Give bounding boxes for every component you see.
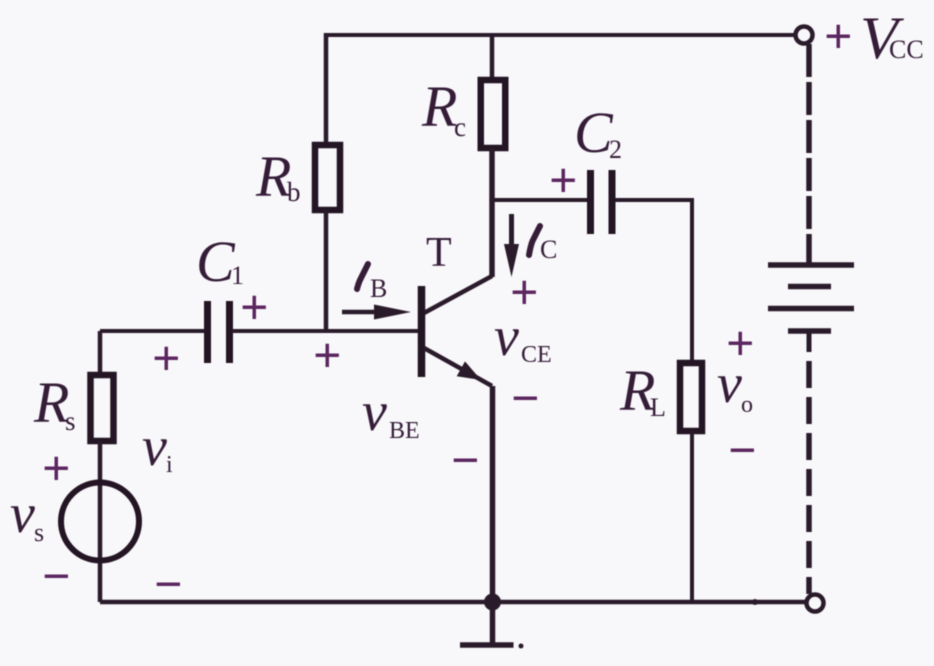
wire C2 right segment (C2 to RL top corner) <box>615 198 692 360</box>
label vi <box>142 416 173 478</box>
label Rs <box>33 370 76 436</box>
transistor emitter slant <box>424 348 492 386</box>
wire input left segment (node to C1) <box>100 329 207 333</box>
svg-text:R: R <box>255 144 291 209</box>
svg-text:+: + <box>313 327 342 383</box>
junction dot emitter-ground <box>484 594 501 611</box>
battery dashed lead upper <box>806 44 812 263</box>
svg-text:+: + <box>824 8 853 64</box>
label C2 <box>574 100 622 165</box>
source vs circle <box>61 483 139 561</box>
svg-text:R: R <box>33 370 69 435</box>
arrow iB <box>342 305 411 320</box>
svg-text:C: C <box>574 100 614 165</box>
wire Rb top (rail to Rb) <box>324 33 329 145</box>
label iC <box>529 226 557 264</box>
svg-text:−: − <box>511 370 540 426</box>
arrow iC <box>504 214 519 277</box>
battery stub below <box>807 331 812 352</box>
svg-text:+: + <box>42 440 71 496</box>
terminal bottom open circle <box>807 595 824 612</box>
svg-text:T: T <box>426 230 452 276</box>
resistor Rb <box>315 145 340 210</box>
label vCE <box>494 306 552 368</box>
label vs <box>10 483 44 547</box>
label +Vcc <box>824 5 924 71</box>
battery plate long 1 <box>768 262 854 268</box>
label vBE <box>362 381 420 444</box>
resistor Rc <box>481 80 506 148</box>
svg-text:v: v <box>362 381 387 443</box>
svg-text:v: v <box>494 306 519 368</box>
label iB <box>357 264 387 303</box>
svg-text:+: + <box>549 152 578 208</box>
label C1 <box>196 229 244 294</box>
svg-text:v: v <box>142 416 167 478</box>
svg-text:−: − <box>451 432 480 488</box>
wire base segment (C1 to base) <box>232 329 420 333</box>
svg-text:o: o <box>741 392 753 418</box>
wire top rail <box>326 33 796 37</box>
small mark on bottom wire <box>752 599 758 605</box>
svg-text:R: R <box>421 74 457 139</box>
ground bar <box>460 642 514 648</box>
svg-text:CC: CC <box>889 35 924 64</box>
battery dashed lead lower <box>806 361 812 594</box>
capacitor C1 <box>208 301 230 363</box>
svg-text:s: s <box>65 406 76 436</box>
svg-text:CE: CE <box>521 342 552 368</box>
label Rb <box>255 144 301 209</box>
wire RL bottom to rail <box>690 431 694 602</box>
battery plate short 2 <box>788 328 831 334</box>
svg-text:s: s <box>34 518 44 547</box>
transistor T base bar <box>418 286 426 377</box>
svg-text:2: 2 <box>609 135 622 164</box>
svg-text:−: − <box>728 422 757 478</box>
capacitor C2 <box>591 170 613 234</box>
label RL <box>619 358 666 423</box>
svg-text:B: B <box>370 274 387 303</box>
svg-text:BE: BE <box>389 418 420 444</box>
terminal +Vcc open circle <box>796 27 813 44</box>
wire bottom rail <box>100 600 807 605</box>
transistor collector slant <box>424 276 492 313</box>
svg-text:−: − <box>42 548 71 604</box>
label Rc <box>421 74 466 142</box>
wire Rs to source <box>98 441 103 602</box>
battery plate long 2 <box>768 306 854 312</box>
ground stub <box>490 602 496 645</box>
svg-text:+: + <box>240 279 269 335</box>
svg-text:i: i <box>166 452 173 478</box>
svg-text:c: c <box>454 112 466 142</box>
svg-text:+: + <box>152 330 181 386</box>
svg-text:+: + <box>726 315 755 371</box>
battery plate short 1 <box>788 284 831 290</box>
label vo <box>717 353 753 418</box>
svg-text:C: C <box>540 235 557 264</box>
transistor emitter arrowhead <box>457 361 481 380</box>
wire Rc bottom (Rc to collector) <box>489 148 495 277</box>
svg-text:C: C <box>196 229 236 294</box>
svg-text:v: v <box>10 483 35 545</box>
resistor RL <box>680 363 702 431</box>
wire Rb bottom (Rb to base node) <box>324 210 329 331</box>
wire left vertical (input node to Rs) <box>98 331 103 372</box>
wire emitter vertical <box>490 386 496 602</box>
resistor Rs <box>91 375 114 441</box>
svg-text:b: b <box>287 177 301 207</box>
wire Rc top (rail to Rc) <box>490 33 495 80</box>
ground small mark <box>519 644 524 649</box>
svg-text:L: L <box>650 393 666 422</box>
wire C2 left segment (collector node to C2) <box>492 198 588 202</box>
